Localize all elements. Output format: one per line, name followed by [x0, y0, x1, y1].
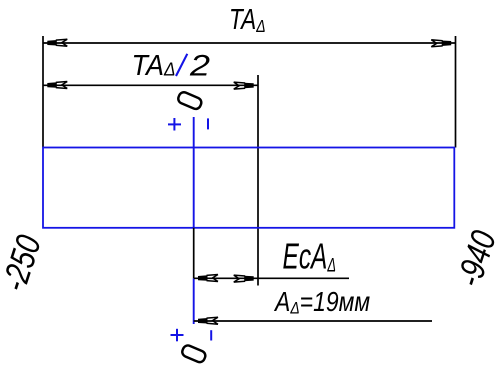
svg-text:AΔ=19мм: AΔ=19мм: [273, 287, 370, 318]
label EcA_delta: [283, 236, 337, 277]
label -250 (rotated): [0, 230, 49, 296]
axis extension black (x=193.7): [193, 228, 195, 278]
label -940 (rotated): [449, 225, 500, 291]
digit 2 of TA/2: [189, 49, 210, 82]
boundary line mid-tolerance (x=258): [257, 75, 259, 286]
dimension line EcA (y=278.3): [194, 277, 349, 279]
zero mark bottom (oval 0): [181, 344, 207, 364]
minus tick bottom (blue): [210, 330, 212, 340]
plus sign bottom (blue): [171, 329, 184, 342]
axis line blue lower: [193, 278, 195, 324]
arrow TA/2 right: [234, 82, 254, 89]
arrow EcA left: [198, 275, 218, 282]
arrow TA right: [431, 40, 451, 47]
dimension line A=19mm (y=321): [194, 320, 432, 322]
plus sign top (blue): [168, 118, 181, 131]
arrow A left: [198, 317, 218, 324]
dimension line TA/2 (y=85): [43, 84, 258, 86]
minus tick top (blue): [207, 118, 209, 129]
extension line right (x=455.5): [455, 36, 457, 148]
arrow TA/2 left: [47, 82, 67, 89]
arrow EcA right: [234, 275, 254, 282]
svg-text:-940: -940: [449, 225, 500, 291]
axis line blue upper (x=193.7): [193, 117, 195, 228]
dimension line TA (y=43): [43, 42, 456, 44]
svg-text:TAΔ: TAΔ: [229, 2, 266, 36]
svg-text:TAΔ: TAΔ: [132, 49, 176, 81]
label A_delta = 19mm: [273, 287, 370, 318]
arrow TA left: [47, 39, 67, 46]
label TA_delta / 2: [132, 49, 176, 81]
svg-text:EcAΔ: EcAΔ: [283, 236, 337, 277]
tolerance field rectangle (blue): [43, 148, 454, 228]
label TA_delta: [229, 2, 266, 36]
svg-text:-250: -250: [0, 230, 49, 296]
extension line left (x=43): [42, 36, 44, 148]
slash of TA/2 (blue): [176, 54, 187, 76]
svg-text:2: 2: [189, 49, 210, 82]
zero mark top (oval 0): [177, 91, 203, 111]
